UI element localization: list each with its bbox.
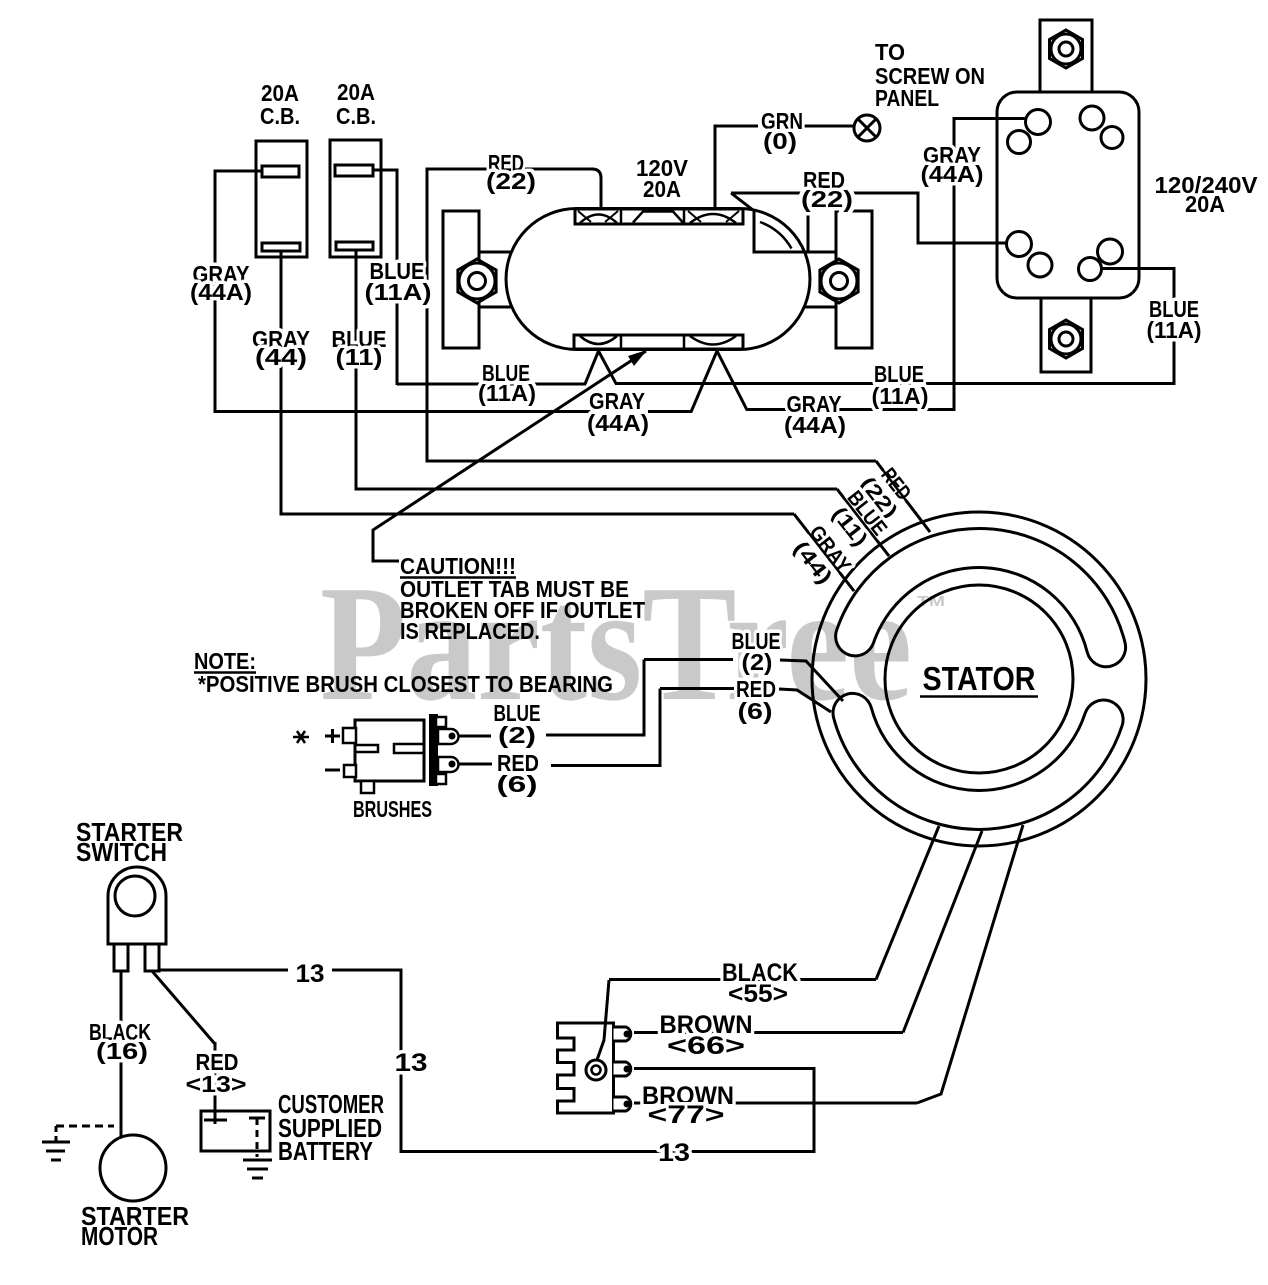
svg-text:(11A): (11A) [1147,317,1202,343]
wire RED 6 - to stator [779,689,831,712]
wire GRAY 44 - diagonal into stator [794,514,854,591]
wire BLUE 2 - to stator [780,660,843,701]
svg-text:20A: 20A [643,176,681,202]
brushes pin 1 [438,729,459,744]
wire BLUE 11A - right vertical [1173,267,1176,385]
wire RED 22 right - vertical [917,192,920,245]
svg-text:(0): (0) [763,128,797,154]
wire RED 6 - horizontal right [660,687,734,690]
svg-text:20A: 20A [337,79,375,105]
svg-text:<77>: <77> [648,1101,725,1129]
svg-text:(44A): (44A) [587,410,649,436]
starter switch hole [115,876,155,916]
outlet 120/240V top nut [1050,30,1083,68]
circuit breaker CB1 top terminal [262,166,299,177]
battery plus terminal [204,1119,227,1122]
wire GRN 0 - horizontal seg1 [715,125,758,128]
wire GRAY 44 - to stator horizontal [281,513,794,516]
circuit breaker CB2 top terminal [335,165,373,176]
connector grommet [586,1060,606,1080]
brushes body [355,720,424,781]
brushes plus sign [325,735,340,738]
wire 13 - seg2 [332,969,403,972]
brushes bottom tab [361,781,374,793]
wire BLUE 11A - horizontal seg1 [397,383,586,386]
circuit breaker CB1 bottom terminal [262,243,300,251]
brushes pin 2 [438,757,459,772]
connector pin 1 [614,1027,631,1041]
wire BLUE 11 - diagonal into stator [837,489,889,556]
outlet 120/240V contact hole 6 [1028,253,1052,277]
svg-text:(44A): (44A) [784,412,846,438]
outlet mounting bracket right [836,211,872,348]
wire RED 22 - curve into outlet slot [592,169,601,210]
wire GRAY 44 - CB1 bottom vertical [280,251,283,516]
outlet 120/240V contact hole 1 [1026,110,1051,135]
starter motor [100,1135,166,1201]
svg-text:BRUSHES: BRUSHES [353,796,432,822]
outlet 120/240V top tab [1040,20,1092,92]
circuit breaker CB2 bottom terminal [336,242,373,250]
wire BLUE 2 - vertical [643,660,646,737]
svg-text:(22): (22) [486,168,536,194]
wire RED 22 right - horizontal [731,192,918,195]
wire RED 6 - horizontal [551,764,662,767]
outlet 120/240V contact hole 7 [1098,239,1123,264]
wire GRAY 44A - leader up to outlet right slot [691,351,747,412]
svg-text:*POSITIVE BRUSH CLOSEST TO BEA: *POSITIVE BRUSH CLOSEST TO BEARING [198,671,613,697]
svg-text:IS REPLACED.: IS REPLACED. [400,618,540,644]
svg-text:MOTOR: MOTOR [81,1221,158,1251]
wire BLUE 2 - horizontal right [644,658,733,661]
svg-text:<66>: <66> [667,1032,745,1060]
wire BLUE 11 diagonal restroke [837,489,889,556]
brushes top nub [436,717,446,727]
wire BLACK 55 - from grommet [597,980,609,1060]
brushes notch right [394,744,424,753]
wire RED 22 - diagonal into stator [876,461,930,532]
wire 13 - vertical [400,970,403,1153]
svg-text:(11): (11) [336,344,383,370]
wire BLUE 11A - leader to outlet left slot [585,351,616,384]
svg-text:C.B.: C.B. [336,103,376,129]
wire BLUE 11A - horizontal seg2 [615,382,1176,385]
battery T terminal [249,1117,265,1120]
stator outer circle [812,512,1146,846]
svg-text:(11A): (11A) [478,380,536,406]
battery body [201,1111,270,1151]
svg-text:(11A): (11A) [365,279,432,305]
wire 13 - bottom horizontal [401,1150,816,1153]
outlet mounting bracket left [443,211,479,348]
brushes notch left [356,745,378,752]
label BLUE (11) rotated [825,487,891,554]
circuit breaker CB2 body [330,140,381,257]
outlet 120/240V bottom tab [1041,298,1091,372]
svg-text:(22): (22) [801,186,853,212]
outlet right bracket nut [820,259,858,303]
starter switch leg left [114,944,128,971]
svg-text:13: 13 [395,1049,428,1077]
wire RED 22 diagonal restroke [876,461,930,532]
wire GRAY 44A - left vertical [214,170,217,414]
starter switch leg right [145,944,159,971]
wire 13 - starter switch to right [160,969,288,972]
wire BROWN 66 - diagonal to stator [903,831,982,1033]
wire BLACK 16 - switch to motor [120,971,123,1137]
wire GRAY 44A - horizontal seg3 [746,408,954,411]
svg-text:(44): (44) [255,344,307,370]
outlet 120/240V contact hole 8 [1079,258,1102,281]
battery T dashed lead [256,1118,259,1157]
ground starter motor [42,1141,70,1144]
stator U1 lower winding band [853,713,1104,810]
wire 13 - connector middle pin wire [634,1067,816,1070]
outlet 120/240V contact hole 4 [1101,127,1123,149]
connector pin 3 [614,1097,631,1111]
outlet left bracket nut [458,259,496,303]
outlet 120/240V contact hole 3 [1080,106,1104,130]
outlet 120/240V body [997,92,1139,298]
caution leader arrow [373,351,646,561]
svg-text:(2): (2) [742,649,773,675]
brushes terminal plus [343,728,356,743]
wire RED 22 - top horizontal [427,168,593,171]
wire BLACK 55 - horizontal [609,978,876,981]
wire GRN 0 - vertical into outlet [714,125,717,211]
brushes right plate [429,714,438,786]
svg-text:(16): (16) [96,1038,148,1064]
wire RED 22 - left vertical [426,168,429,463]
wire BLACK 55 - diagonal to stator [876,826,939,980]
svg-text:13: 13 [296,960,325,988]
wire BLUE 11 - CB2 bottom vertical [355,250,358,491]
connector block body [558,1023,614,1113]
wire RED 6 - vertical [659,689,662,768]
outlet 120/240V contact hole 5 [1007,232,1032,257]
outlet 120V break-off tab corner [754,210,808,252]
label RED (22) rotated [855,459,919,523]
svg-text:(44A): (44A) [921,161,984,187]
svg-text:C.B.: C.B. [260,103,300,129]
svg-text:PANEL: PANEL [875,85,939,111]
wire GRAY 44 diagonal restroke [794,514,854,591]
wire RED 22 - to stator horizontal [427,460,876,463]
brushes terminal minus [344,765,356,777]
svg-text:(6): (6) [738,698,773,724]
starter switch body [108,867,166,944]
svg-text:(44A): (44A) [190,279,252,305]
wire BROWN 77 - diagonal to stator [917,825,1023,1103]
wire BLUE 2 - brush pin tail [458,735,491,738]
wire BLUE 2 - horizontal [546,734,646,737]
wire GRAY 44A - right vertical [953,117,956,411]
stator U1 upper winding band [855,548,1106,647]
wire GRAY 44A - horizontal seg2 [648,410,692,413]
stator inner circle [885,585,1073,773]
wire RED 22 right - leader from outlet slot [731,193,753,210]
connector pin 2 [614,1062,631,1076]
wire RED 6 - brush pin tail [458,763,492,766]
wire BLUE 11 - to stator horizontal [356,488,837,491]
outlet 120V body [506,209,810,350]
svg-text:(11A): (11A) [872,383,929,409]
label GRAY (44) rotated [787,521,855,590]
svg-text:BATTERY: BATTERY [278,1136,373,1166]
svg-text:(6): (6) [497,771,538,797]
wire GRAY 44A - long horizontal [215,410,591,413]
brushes minus sign [325,769,340,772]
wire BLUE 11A - CB2 top to elbow [373,169,399,172]
svg-text:SWITCH: SWITCH [76,837,167,867]
svg-text:20A: 20A [1185,191,1225,217]
panel screw symbol [854,115,880,141]
wire GRN 0 - horizontal seg2 [803,125,854,128]
svg-text:<13>: <13> [186,1071,247,1097]
circuit breaker CB1 body [256,141,307,257]
outlet 120V top slot bar [575,209,743,224]
wire GRAY 44A - to 240V outlet top circle [954,117,1027,120]
brushes asterisk [293,736,309,739]
svg-text:13: 13 [658,1139,690,1167]
wire 13 - up to connector pin [813,1067,816,1152]
wire BLUE 11A - vertical [396,169,399,386]
outlet 120V bottom slot arcs [580,336,617,344]
outlet 120/240V bottom nut [1050,320,1083,358]
outlet 120/240V contact hole 2 [1008,131,1031,154]
svg-text:<55>: <55> [728,980,788,1008]
wire RED 13 - diagonal [152,971,215,1044]
wire BROWN 77 - horizontal [634,1102,917,1105]
wire BLUE 11A - to 240V outlet circle [1101,267,1176,270]
svg-text:(2): (2) [498,722,536,748]
outlet 120V top ground contact [633,212,683,223]
svg-text:TO: TO [875,39,905,65]
wire RED 22 right - to 240V outlet circle [918,242,1008,245]
outlet 120V bottom slot bar [574,335,743,349]
brushes bottom nub [436,774,446,784]
wire GRAY 44A - CB1 top to left elbow [215,170,263,173]
svg-text:STATOR: STATOR [923,660,1036,697]
wire RED 13 - vertical to battery [214,1042,217,1124]
outlet 120V top slot arcs [580,215,617,224]
ground battery [243,1159,272,1162]
outlet 120V top slot ticks [578,211,591,222]
ground starter dashed wire [56,1125,114,1128]
wire BROWN 66 - horizontal [634,1031,903,1034]
svg-text:TM: TM [917,593,945,610]
